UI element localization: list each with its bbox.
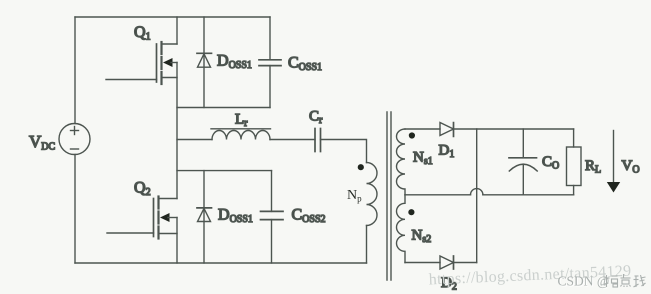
inductor Lr [211, 129, 271, 140]
svg-text:Lr: Lr [235, 112, 248, 130]
wire left vertical upper [74, 17, 76, 124]
source VDC [59, 124, 90, 155]
svg-text:DOSS1: DOSS1 [218, 207, 253, 226]
wire Lr right lead [270, 139, 315, 141]
svg-text:Ns1: Ns1 [413, 150, 433, 168]
wire Cr to primary [321, 140, 367, 163]
wire Q2 source vertical [176, 218, 178, 264]
svg-text:CSDN @: CSDN @ [558, 274, 610, 289]
transistor Q2 [107, 197, 177, 239]
svg-text:Cr: Cr [309, 109, 323, 127]
capacitor Cr [315, 129, 321, 152]
transistor Q1 [106, 17, 177, 84]
svg-text:COSS2: COSS2 [292, 207, 326, 226]
wire crossover hump [471, 189, 483, 195]
wire left vertical lower [74, 155, 76, 264]
wire Ns1 to D1 [405, 128, 440, 130]
transformer core [386, 112, 388, 280]
wire D2 to join vertical [454, 262, 477, 264]
svg-text:COSS1: COSS1 [288, 55, 322, 74]
wire Lr left lead [177, 139, 212, 141]
diode DOSS2 [197, 171, 212, 263]
wire box2 top rail [177, 170, 272, 172]
svg-text:Ns2: Ns2 [412, 228, 432, 246]
Ns2 phase dot [408, 209, 414, 215]
secondary winding Ns1 [397, 129, 406, 195]
wire bottom rail [75, 262, 367, 264]
wire center tap [405, 194, 471, 196]
wire output bottom rail [483, 194, 574, 196]
svg-text:Q1: Q1 [134, 24, 151, 43]
wire midpoint vertical [176, 63, 178, 199]
primary phase dot [358, 164, 364, 170]
diode DOSS1 [197, 17, 212, 108]
wire Ns2 to D2 [405, 262, 440, 264]
svg-text:CO: CO [542, 154, 559, 172]
capacitor COSS2 [261, 171, 284, 263]
svg-text:Np: Np [347, 188, 362, 204]
wire top rail [75, 16, 270, 18]
wire box1 bottom rail [177, 107, 270, 109]
capacitor CO [509, 129, 537, 195]
svg-text:RL: RL [585, 158, 601, 176]
svg-text:D1: D1 [439, 143, 455, 161]
wire output top rail [454, 128, 574, 130]
diode D1 [440, 123, 454, 137]
output voltage arrow VO [607, 131, 620, 193]
svg-text:VO: VO [622, 158, 640, 176]
diode D2 [440, 256, 454, 269]
svg-text:VDC: VDC [29, 132, 56, 153]
svg-text:DOSS1: DOSS1 [217, 53, 252, 72]
watermark CSDN [558, 274, 611, 290]
resistor RL [567, 129, 582, 195]
Ns1 phase dot [409, 132, 415, 138]
secondary winding Ns2 [397, 195, 406, 263]
watermark hanzi [604, 274, 646, 287]
wire D2 join vertical [476, 129, 478, 263]
capacitor COSS1 [259, 17, 281, 108]
svg-text:Q2: Q2 [134, 180, 151, 199]
transformer primary Np [367, 163, 378, 264]
